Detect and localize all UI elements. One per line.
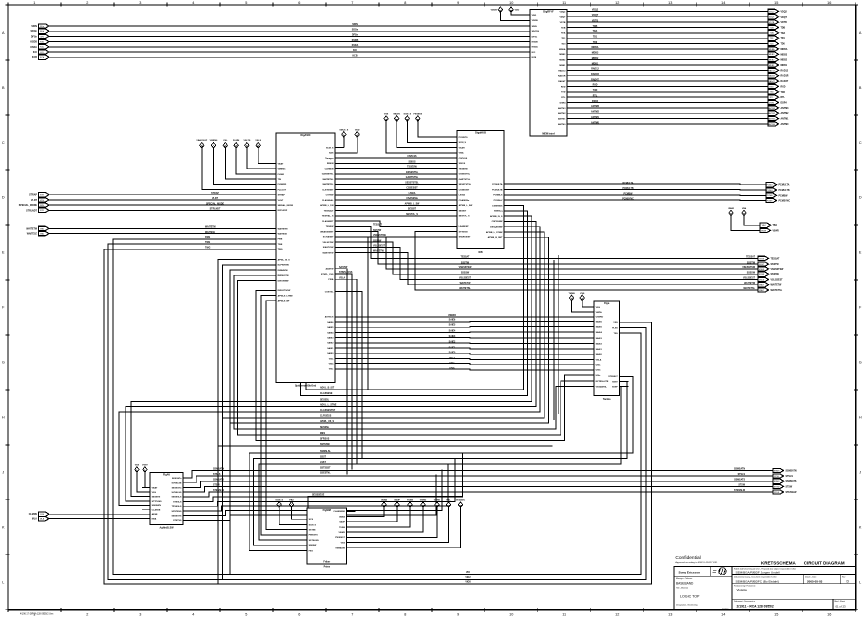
- svg-text:H: H: [2, 416, 5, 420]
- wire net SPSTESS riser: [191, 464, 448, 511]
- svg-text:SAIE3: SAIE3: [449, 335, 456, 338]
- connector flag SDa: [31, 24, 49, 28]
- connector flag SSMS: [773, 468, 797, 472]
- connector flag RAD1R: [768, 74, 789, 78]
- svg-text:RXD: RXD: [781, 86, 786, 88]
- svg-text:VIO8: VIO8: [465, 582, 471, 584]
- wire net MDBA: [576, 48, 768, 50]
- svg-text:MSA: MSA: [152, 518, 157, 521]
- svg-text:ANTM0: ANTM0: [768, 123, 776, 126]
- svg-text:J: J: [2, 471, 4, 475]
- svg-text:WAITETSL: WAITETSL: [459, 287, 471, 290]
- svg-text:SSMSATN: SSMSATN: [786, 470, 797, 473]
- svg-text:Prime: Prime: [324, 567, 331, 569]
- svg-text:SPE: SPE: [40, 205, 45, 207]
- svg-text:VDDB: VDDB: [532, 20, 539, 22]
- wire bus U1-NIB: [344, 215, 448, 217]
- wire bus U1-NIB: [344, 221, 448, 226]
- svg-text:DSR4: DSR4: [560, 101, 567, 104]
- svg-text:16: 16: [827, 1, 831, 5]
- connector flag WAI: [27, 231, 49, 235]
- svg-text:PCMULTB: PCMULTB: [622, 188, 633, 190]
- svg-text:SSNSLq: SSNSLq: [494, 211, 503, 213]
- svg-text:SAIE5: SAIE5: [596, 325, 603, 328]
- svg-text:CLASSERT: CLASSERT: [322, 220, 334, 223]
- svg-text:SCTIASET: SCTIASET: [323, 236, 334, 239]
- svg-text:WAITETRL: WAITETRL: [322, 183, 334, 186]
- svg-text:LOGIC TOP: LOGIC TOP: [680, 595, 700, 599]
- svg-text:STRAP: STRAP: [211, 192, 219, 195]
- svg-text:SSTESW: SSTESW: [320, 444, 331, 446]
- wire power VANA: [356, 508, 385, 517]
- wire net SSMSATN: [191, 471, 773, 479]
- wire TMSB feed: [572, 301, 585, 312]
- connector flag VSLS: [758, 277, 783, 281]
- svg-text:E: E: [2, 251, 5, 255]
- svg-text:VSES: VSES: [759, 269, 765, 271]
- svg-text:VSIM2: VSIM2: [338, 532, 345, 534]
- svg-text:SSSP: SSSP: [612, 386, 618, 388]
- svg-text:2/1911 - RCA 128 0955/2: 2/1911 - RCA 128 0955/2: [737, 605, 774, 609]
- svg-text:STSW: STSW: [213, 485, 220, 487]
- svg-text:VSATI: VSATI: [459, 146, 466, 149]
- wire net TPSSSLS riser: [191, 459, 455, 507]
- svg-text:SAIE4: SAIE4: [449, 329, 456, 332]
- svg-text:VDTB: VDTB: [781, 22, 788, 24]
- svg-text:RTL: RTL: [593, 95, 598, 97]
- svg-text:RAD1R: RAD1R: [558, 75, 566, 78]
- svg-text:STRLNDT: STRLNDT: [26, 210, 37, 212]
- power symbol VSLTS: [243, 140, 250, 148]
- wire power feed VSLS: [258, 148, 267, 163]
- svg-text:VAUF: VAUF: [339, 521, 345, 524]
- wire FB2 feed to D200: [292, 507, 299, 519]
- svg-text:VDQT: VDQT: [781, 17, 788, 19]
- connector flag DSR4: [768, 100, 787, 104]
- svg-text:SSST: SSST: [759, 264, 765, 266]
- svg-text:FSSESS: FSSESS: [413, 113, 422, 115]
- svg-text:KCB: KCB: [532, 57, 537, 59]
- connector flag TD0: [768, 41, 786, 45]
- wire net VB4R: [731, 216, 760, 231]
- connector flag PCMU: [766, 183, 790, 187]
- svg-text:RAD1R: RAD1R: [781, 75, 789, 78]
- svg-text:SSMSLSL: SSMSLSL: [320, 451, 331, 453]
- svg-text:TD1: TD1: [593, 37, 598, 39]
- svg-text:SDOTA: SDOTA: [532, 30, 540, 33]
- power symbol VSIM1: [434, 500, 441, 508]
- svg-text:4: 4: [192, 1, 194, 5]
- svg-text:SSMS: SSMS: [774, 470, 780, 472]
- wire net APWL_US_S: [230, 237, 548, 423]
- svg-text:4/196 17-2/RCA 128 0955/2 Uen: 4/196 17-2/RCA 128 0955/2 Uen: [20, 613, 54, 616]
- svg-text:7: 7: [351, 612, 353, 616]
- svg-text:SESSSTa: SESSSTa: [172, 478, 182, 480]
- svg-text:STARSSIST: STARSSIST: [459, 236, 472, 239]
- wire net SESSDL: [131, 216, 532, 496]
- svg-text:RTL: RTL: [781, 97, 786, 99]
- svg-text:DigRF-IF: DigRF-IF: [543, 11, 554, 14]
- svg-text:2005-05-03: 2005-05-03: [807, 579, 823, 583]
- svg-text:GSSESTSL: GSSESTSL: [459, 174, 471, 176]
- power symbol FB2: [289, 499, 294, 507]
- svg-text:SESSTSTSL: SESSTSTSL: [459, 184, 472, 186]
- IC block D300: [142, 473, 191, 530]
- power symbol VSIM2: [420, 500, 427, 508]
- svg-text:TESSAT: TESSAT: [746, 256, 755, 259]
- svg-text:ANTM3: ANTM3: [781, 107, 790, 110]
- svg-text:USlc: USlc: [596, 375, 602, 377]
- svg-text:CSSESIST: CSSESIST: [459, 189, 470, 191]
- svg-text:A: A: [2, 31, 5, 35]
- connector flag SSST: [758, 262, 779, 266]
- svg-text:Title - Material: Title - Material: [676, 586, 688, 589]
- svg-text:MDB3: MDB3: [781, 54, 788, 56]
- svg-text:SVSSLSE: SVSSLSE: [172, 483, 182, 485]
- power symbol VBAT1: [393, 112, 401, 121]
- svg-text:C: C: [859, 141, 862, 145]
- svg-text:USlb: USlb: [596, 370, 602, 372]
- wire power feed VSLTS: [247, 148, 267, 169]
- svg-text:TDB: TDB: [593, 26, 598, 28]
- svg-text:USlb: USlb: [449, 368, 455, 370]
- svg-text:Tamba: Tamba: [603, 398, 611, 401]
- wire net CLFISESS: [222, 232, 544, 418]
- wire power VSIM1: [356, 508, 438, 538]
- svg-text:TSSESW: TSSESW: [407, 167, 418, 169]
- svg-text:VLNT: VLNT: [212, 198, 219, 200]
- wire VDD to D700 pin: [511, 13, 521, 16]
- svg-text:RAD4T: RAD4T: [558, 80, 566, 83]
- svg-text:VDTB: VDTB: [560, 22, 566, 24]
- svg-text:MDB1: MDB1: [559, 65, 566, 67]
- svg-text:SSSSW: SSSSW: [373, 240, 382, 242]
- svg-text:DSR4: DSR4: [769, 102, 775, 104]
- wire net STARSSIST: [368, 237, 448, 390]
- svg-text:WAITETW: WAITETW: [744, 282, 756, 285]
- svg-text:SAIE3: SAIE3: [327, 337, 334, 340]
- wire net SSTSSST: [261, 296, 298, 535]
- wire net VSLSSEST: [344, 247, 758, 279]
- svg-text:SSMSATN: SSMSATN: [213, 468, 224, 471]
- wire net SSMSATS: [191, 481, 773, 487]
- svg-text:STTESSI: STTESSI: [459, 231, 468, 233]
- net name labels for top-left bus: [352, 24, 359, 57]
- wire bus U1-Tamba: [344, 337, 585, 339]
- svg-text:Rev: Rev: [842, 577, 845, 579]
- wire net to MEM interface: [49, 30, 521, 32]
- svg-text:ANTM1: ANTM1: [781, 118, 790, 121]
- connector flag STSW: [773, 484, 793, 488]
- wire VBAT1 feed to NIB: [397, 121, 448, 147]
- svg-text:H: H: [859, 416, 862, 420]
- svg-text:16: 16: [827, 612, 831, 616]
- wire net ANTM3: [576, 107, 768, 109]
- svg-text:TDB: TDB: [561, 27, 566, 29]
- svg-text:PCMULTB: PCMULTB: [779, 190, 790, 192]
- wire net CLASSESE: [301, 211, 528, 395]
- svg-text:APWLS_LTNW: APWLS_LTNW: [278, 294, 294, 297]
- wire VDD feed to U1: [344, 137, 357, 153]
- connector flag VSES: [758, 267, 784, 271]
- svg-text:VSLSSEST: VSLSSEST: [771, 280, 784, 282]
- svg-text:VBACKUP: VBACKUP: [196, 139, 207, 142]
- svg-text:MDB2: MDB2: [592, 58, 599, 60]
- svg-text:VMPA: VMPA: [596, 311, 602, 314]
- wire net LSST: [259, 387, 628, 541]
- svg-text:SSMSATS: SSMSATS: [213, 478, 224, 481]
- svg-text:VB4R: VB4R: [761, 230, 767, 232]
- svg-text:11: 11: [562, 612, 566, 616]
- svg-text:DSR4: DSR4: [781, 102, 788, 105]
- svg-text:RAD4T: RAD4T: [591, 78, 599, 81]
- svg-text:EXFLEXF: EXFLEXF: [278, 210, 288, 212]
- svg-text:STTPLMS: STTPLMS: [152, 501, 163, 503]
- wire net VLNT: [49, 199, 267, 201]
- svg-text:VBAT: VBAT: [152, 486, 158, 489]
- svg-text:PCMULTA: PCMULTA: [492, 183, 503, 186]
- wire FSSESS feed to NIB: [418, 121, 448, 137]
- svg-text:SASTW: SASTW: [339, 266, 348, 269]
- svg-text:LSST: LSST: [320, 462, 326, 464]
- svg-text:L: L: [859, 581, 861, 585]
- svg-text:STSSLS: STSSLS: [173, 501, 182, 503]
- svg-text:SSSTW: SSSTW: [461, 262, 470, 264]
- power symbol VMEM6: [210, 140, 219, 148]
- svg-text:ANTM2: ANTM2: [781, 112, 790, 115]
- svg-text:VDD: VDD: [532, 15, 537, 17]
- connector flag VLN: [31, 198, 49, 202]
- svg-text:13: 13: [668, 612, 672, 616]
- svg-text:TPSSSLS: TPSSSLS: [172, 506, 182, 508]
- svg-text:SAIE5: SAIE5: [449, 324, 456, 327]
- svg-text:G: G: [859, 361, 862, 365]
- svg-text:KCl: KCl: [33, 52, 37, 54]
- svg-text:FLLOUT: FLLOUT: [278, 189, 287, 191]
- wire net to MEM interface: [49, 35, 521, 37]
- svg-text:APWB_L_SW: APWB_L_SW: [405, 203, 421, 206]
- connector flag KSb: [30, 39, 49, 43]
- wire bus U1-NIB: [344, 173, 448, 175]
- svg-text:SCM_S: SCM_S: [275, 499, 283, 501]
- svg-text:SSESW: SSESW: [309, 545, 318, 547]
- connector flag KCb: [32, 55, 49, 59]
- svg-text:VSIc: VSIc: [329, 369, 334, 371]
- wire net to MEM interface: [49, 41, 521, 43]
- IC block D400: [585, 301, 628, 401]
- svg-text:MEM Interf: MEM Interf: [542, 132, 554, 135]
- wire SCM_S feed to NIB: [407, 121, 448, 142]
- connector flag SSMS: [773, 479, 797, 483]
- svg-text:STESSLW: STESSLW: [786, 492, 798, 494]
- wire net VB4: [744, 216, 760, 225]
- svg-text:SAIE1: SAIE1: [327, 347, 334, 350]
- svg-text:SESSTN: SESSTN: [152, 496, 161, 498]
- svg-text:AgNmSLSW: AgNmSLSW: [160, 527, 175, 530]
- net name labels group right bus: [0, 0, 1, 1]
- svg-text:STRAP: STRAP: [278, 194, 286, 197]
- svg-text:MDB1: MDB1: [781, 65, 788, 67]
- svg-text:3: 3: [139, 612, 141, 616]
- svg-text:CSPSSNW: CSPSSNW: [492, 221, 504, 223]
- svg-text:TDA: TDA: [561, 32, 566, 35]
- svg-text:15: 15: [774, 612, 778, 616]
- svg-text:DigaNUB: DigaNUB: [475, 132, 486, 135]
- wire bus drop a: [217, 446, 219, 584]
- svg-text:SVSSLSS: SVSSLSS: [172, 492, 182, 494]
- svg-text:SAIE2: SAIE2: [327, 342, 334, 345]
- wire net to MEM interface: [49, 46, 521, 48]
- svg-text:12: 12: [615, 1, 619, 5]
- svg-text:TESSAT: TESSAT: [373, 224, 382, 227]
- wire net DSR4: [576, 102, 768, 104]
- connector flag STSL: [773, 474, 793, 478]
- svg-text:9: 9: [457, 612, 459, 616]
- connector flag ANTM1: [768, 116, 789, 120]
- connector flag SSSS: [758, 272, 780, 276]
- wire net PSIA: [344, 279, 357, 464]
- svg-text:TDB: TDB: [770, 27, 775, 29]
- svg-text:J: J: [859, 471, 861, 475]
- svg-text:CSPLSS: CSPLSS: [459, 158, 468, 160]
- svg-text:VSSDATSL: VSSDATSL: [596, 385, 608, 388]
- svg-text:PCMB: PCMB: [767, 195, 773, 197]
- svg-text:STSPL_CSS: STSPL_CSS: [321, 274, 334, 276]
- wire net SSESTNL: [266, 301, 298, 530]
- wire net TDA: [576, 32, 768, 34]
- svg-text:USla: USla: [449, 363, 455, 365]
- svg-text:SDIN: SDIN: [532, 26, 538, 28]
- svg-text:KCB: KCB: [32, 57, 37, 59]
- svg-text:TB4: TB4: [773, 224, 778, 227]
- svg-text:RAD12: RAD12: [591, 68, 599, 71]
- svg-text:Approved according to 0902 LL/: Approved according to 0902 LL/05127 4/31: [675, 561, 718, 564]
- svg-text:K: K: [2, 526, 5, 530]
- svg-text:SSTSSST: SSTSSST: [320, 467, 331, 469]
- svg-text:COSTSL: COSTSL: [325, 292, 334, 294]
- svg-text:VSIA: VSIA: [459, 152, 464, 155]
- svg-text:SSTSLMS: SSTSLMS: [309, 540, 320, 542]
- connector flag MDB2: [768, 57, 788, 61]
- connector flag PCMB: [766, 193, 788, 197]
- svg-text:ADUL_L_STNE: ADUL_L_STNE: [320, 403, 337, 406]
- svg-text:PCMSYNC: PCMSYNC: [622, 199, 634, 201]
- svg-text:L: L: [2, 581, 4, 585]
- svg-text:VDD: VDD: [355, 129, 360, 131]
- wire bus U1-NIB: [344, 204, 448, 206]
- svg-text:PWSSTS: PWSSTS: [309, 535, 319, 537]
- wire net MDB3: [576, 53, 768, 55]
- svg-text:SCS: SCS: [309, 519, 314, 521]
- svg-text:STESSLW: STESSLW: [213, 490, 225, 492]
- wire net ANTM2: [576, 112, 768, 114]
- wire net SSMSLSL: [249, 376, 633, 550]
- svg-text:TDA: TDA: [593, 30, 598, 33]
- svg-text:SESSSTS: SESSSTS: [172, 516, 182, 518]
- svg-text:VSLTS: VSLTS: [243, 140, 250, 142]
- svg-text:TDB: TDB: [781, 27, 786, 29]
- svg-text:VB4R: VB4R: [773, 229, 779, 232]
- svg-text:WAITE1E: WAITE1E: [27, 233, 38, 236]
- wire VDDB to D700 pin: [500, 13, 521, 21]
- svg-text:4: 4: [192, 612, 194, 616]
- wire VSS feed to D300: [137, 472, 142, 492]
- svg-text:10: 10: [509, 612, 513, 616]
- svg-text:KSDA: KSDA: [30, 46, 37, 49]
- svg-text:SCM_S: SCM_S: [404, 113, 412, 115]
- wire net TESSAT: [344, 226, 758, 258]
- wire net MLA: [49, 518, 142, 520]
- wire net SFRSUS: [256, 290, 585, 440]
- svg-text:6: 6: [298, 612, 300, 616]
- wire VSS feed to NIB: [386, 121, 448, 152]
- svg-text:CLASSEAL: CLASSEAL: [322, 199, 334, 202]
- wire power feed VBACKUP: [202, 148, 267, 189]
- svg-text:BASEBAND: BASEBAND: [676, 582, 694, 586]
- svg-text:AESE: AESE: [152, 513, 158, 516]
- wire net TXD: [576, 91, 768, 93]
- wire bus U1-Tamba: [344, 353, 585, 354]
- svg-text:STSTSS: STSTSS: [173, 520, 182, 522]
- svg-text:9: 9: [457, 1, 459, 5]
- svg-text:RAD12: RAD12: [781, 69, 789, 72]
- svg-text:TD1: TD1: [781, 38, 786, 40]
- svg-text:GARTSTSL: GARTSTSL: [459, 178, 471, 181]
- svg-text:KRETSSCHEMA: KRETSSCHEMA: [761, 561, 797, 566]
- svg-text:FLMM: FLMM: [233, 140, 239, 142]
- wire bus drop c: [229, 423, 231, 574]
- wire net ANTM1: [576, 118, 768, 120]
- wire bus U1-NIB: [344, 168, 448, 170]
- wire net MES: [238, 280, 585, 435]
- connector flag CLM: [29, 512, 49, 516]
- svg-text:1: 1: [33, 1, 35, 5]
- svg-text:SSMSATS: SSMSATS: [734, 478, 745, 481]
- wire net RAD4T: [576, 80, 768, 82]
- svg-text:WAITETW: WAITETW: [373, 250, 385, 253]
- svg-text:6: 6: [298, 1, 300, 5]
- svg-text:7: 7: [351, 1, 353, 5]
- power symbol VB4R: [728, 207, 734, 216]
- svg-text:TXD: TXD: [561, 92, 566, 94]
- svg-text:SESSNL: SESSNL: [320, 427, 330, 429]
- svg-text:VSLSSEST: VSLSSEST: [459, 278, 472, 280]
- wire power feed VMEM6: [214, 148, 268, 184]
- svg-text:KSDB: KSDB: [30, 42, 37, 44]
- power symbol SCM_S: [404, 113, 412, 121]
- svg-text:CLASSESE: CLASSESE: [333, 510, 345, 513]
- svg-text:MLA: MLA: [40, 518, 45, 521]
- svg-text:SCM_S: SCM_S: [326, 147, 334, 149]
- svg-text:VSIM2: VSIM2: [420, 500, 427, 502]
- svg-text:APWLS_BF: APWLS_BF: [278, 300, 290, 303]
- connector flag VB4R: [760, 228, 779, 232]
- svg-text:TXD: TXD: [770, 92, 775, 94]
- connector flag WAIT: [758, 288, 783, 292]
- wire net TWG loop: [113, 239, 641, 575]
- power symbol VSL: [223, 140, 228, 148]
- svg-text:Violetta: Violetta: [737, 588, 748, 592]
- wire net STSLS: [191, 476, 773, 483]
- svg-text:PWSSIST: PWSSIST: [335, 537, 345, 539]
- svg-text:SPECIAL_MODE: SPECIAL_MODE: [206, 202, 225, 205]
- svg-text:GASSETNL: GASSETNL: [322, 173, 334, 176]
- svg-text:13: 13: [668, 1, 672, 5]
- svg-text:SESSDL: SESSDL: [320, 399, 330, 401]
- connector flag ANTM0: [768, 122, 789, 126]
- connector flag SPE: [19, 203, 49, 207]
- svg-text:RAD4T: RAD4T: [781, 80, 789, 83]
